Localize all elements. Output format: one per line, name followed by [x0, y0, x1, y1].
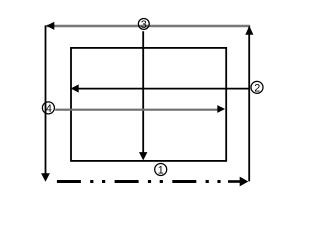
arrowhead right at bottom right [240, 177, 249, 187]
arrowhead up at top of right line [245, 26, 253, 35]
arrowhead left on top line [46, 22, 54, 30]
inner rectangle (part outline) [71, 48, 226, 161]
svg-text:3: 3 [141, 19, 147, 31]
arrow shaft at right end of phantom line [228, 180, 241, 183]
arrowhead down at bottom of left line [41, 173, 50, 182]
balloon 2 [251, 81, 263, 93]
arrowhead left at inner rect left edge [71, 84, 79, 92]
svg-text:4: 4 [46, 103, 52, 115]
svg-text:1: 1 [158, 164, 164, 176]
wire: top horizontal dimension line (3) [47, 25, 251, 27]
wire: bottom phantom (dash-dot-dot) thick line [57, 180, 221, 183]
wire: right vertical extension line [248, 27, 250, 182]
balloon 4 [42, 102, 54, 114]
arrowhead down at inner rect bottom [139, 152, 147, 160]
wire: left vertical extension line [45, 25, 47, 173]
arrowhead right at inner rect right edge [217, 105, 225, 113]
balloon 1 [155, 163, 167, 175]
balloon 3 [138, 18, 149, 29]
svg-text:2: 2 [254, 82, 260, 94]
wire: horizontal dimension line (2) [77, 88, 249, 90]
wire: vertical center line from balloon 3 down (1) [142, 31, 144, 152]
wire: horizontal dimension line (4) [55, 109, 218, 111]
